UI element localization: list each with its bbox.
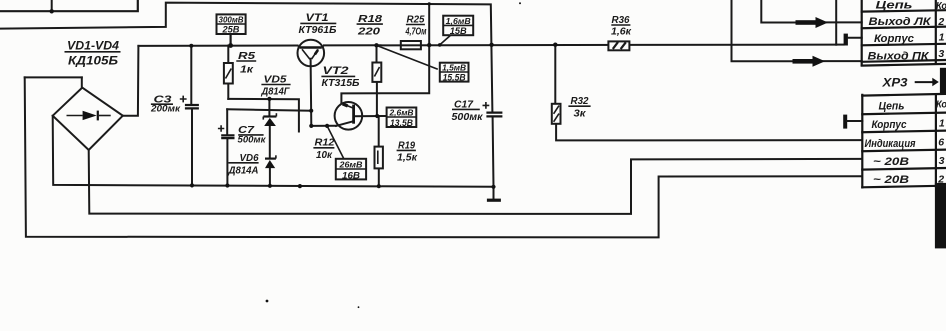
svg-text:500мк: 500мк	[238, 134, 267, 145]
svg-text:Выход ЛК: Выход ЛК	[869, 16, 932, 28]
svg-text:Корпус: Корпус	[872, 119, 907, 131]
svg-text:R18: R18	[358, 13, 382, 25]
svg-text:1,6мВ: 1,6мВ	[446, 17, 471, 26]
svg-text:3: 3	[939, 155, 945, 167]
svg-text:Цепь: Цепь	[876, 0, 913, 12]
svg-text:300мВ: 300мВ	[219, 15, 244, 24]
svg-text:Ко: Ко	[936, 1, 946, 12]
svg-text:КТ961Б: КТ961Б	[299, 24, 338, 36]
svg-text:3: 3	[938, 48, 944, 60]
svg-text:Корпус: Корпус	[874, 33, 914, 45]
svg-text:VD5: VD5	[264, 73, 287, 85]
svg-text:2: 2	[937, 173, 944, 185]
svg-text:15В: 15В	[450, 26, 467, 37]
svg-text:Индикация: Индикация	[865, 138, 917, 150]
svg-text:2,6мВ: 2,6мВ	[388, 109, 413, 118]
svg-text:1: 1	[939, 32, 945, 44]
svg-text:VT1: VT1	[306, 12, 329, 24]
svg-text:VT2: VT2	[323, 65, 349, 77]
svg-text:Д814Г: Д814Г	[261, 86, 291, 97]
svg-text:Д814А: Д814А	[228, 165, 259, 176]
svg-text:4,7Ом: 4,7Ом	[405, 27, 427, 38]
svg-text:КТ315Б: КТ315Б	[322, 77, 361, 89]
svg-text:2: 2	[937, 16, 944, 28]
svg-text:1,5мВ: 1,5мВ	[442, 64, 466, 73]
svg-text:~ 20В: ~ 20В	[873, 174, 909, 186]
svg-text:Ко: Ко	[936, 100, 946, 111]
svg-text:500мк: 500мк	[452, 112, 484, 123]
svg-text:6: 6	[938, 137, 944, 149]
svg-text:16В: 16В	[342, 170, 360, 181]
svg-text:1: 1	[939, 117, 945, 129]
svg-text:Цепь: Цепь	[879, 100, 905, 112]
svg-text:15,5В: 15,5В	[443, 73, 466, 83]
svg-text:200мк: 200мк	[150, 103, 181, 114]
svg-text:26мВ: 26мВ	[338, 160, 362, 170]
svg-text:220: 220	[357, 25, 380, 37]
svg-text:КД105Б: КД105Б	[68, 56, 118, 68]
svg-text:R5: R5	[238, 50, 255, 62]
svg-text:ХР3: ХР3	[881, 76, 907, 90]
svg-text:R12: R12	[315, 137, 335, 149]
svg-text:~ 20В: ~ 20В	[873, 156, 909, 168]
svg-text:10к: 10к	[316, 149, 333, 161]
svg-text:25В: 25В	[222, 25, 240, 36]
svg-text:R32: R32	[571, 95, 589, 107]
svg-text:Выход ПК: Выход ПК	[868, 51, 930, 63]
svg-text:VD1-VD4: VD1-VD4	[67, 41, 120, 53]
svg-text:1,5к: 1,5к	[397, 153, 418, 164]
svg-text:1к: 1к	[240, 65, 254, 76]
svg-text:13,5В: 13,5В	[390, 118, 413, 128]
svg-text:1,6к: 1,6к	[611, 27, 632, 38]
svg-text:3к: 3к	[574, 109, 587, 120]
